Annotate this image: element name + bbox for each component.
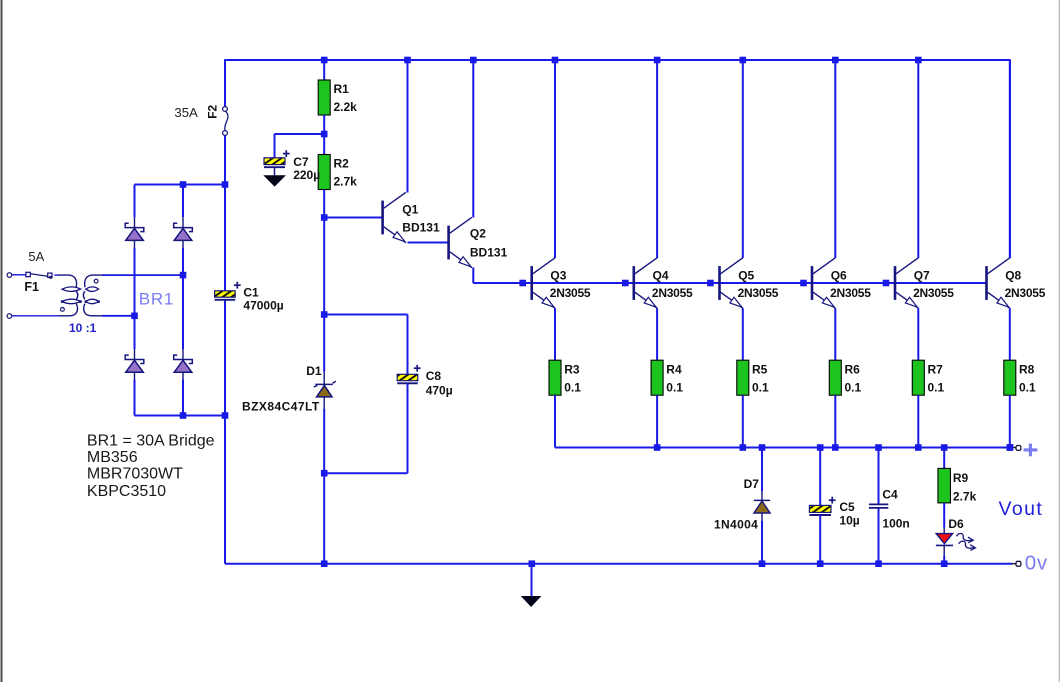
transistor Q1 <box>383 192 440 242</box>
wire Q4 collector up <box>656 60 658 258</box>
wire C4 branch <box>878 448 880 505</box>
svg-text:C4: C4 <box>882 488 898 502</box>
svg-text:220µ: 220µ <box>293 168 320 182</box>
svg-text:C8: C8 <box>426 369 442 383</box>
transformer T1 secondary winding <box>83 275 103 316</box>
node Q1 base tap <box>321 214 328 221</box>
wire left rail junction-to-C1 <box>224 185 226 291</box>
svg-text:10 :1: 10 :1 <box>69 321 97 335</box>
wire Q5 collector up <box>742 60 744 258</box>
node bridge top F2 rail <box>222 181 229 188</box>
wire 0v rail <box>225 563 1012 565</box>
node base bus junction <box>883 280 890 287</box>
note bridge types line2 <box>87 449 138 466</box>
resistor R4 <box>651 360 683 395</box>
diode bridge lower-right <box>174 355 193 372</box>
label 10 to 1 ratio <box>69 321 97 335</box>
svg-text:0.1: 0.1 <box>666 380 683 394</box>
svg-text:2N3055: 2N3055 <box>738 286 779 300</box>
wire secondary bottom to bridge left leg <box>102 315 135 317</box>
wire Q8 collector drop from top bus <box>1009 59 1011 258</box>
wire D7 to 0v <box>761 513 763 564</box>
resistor R1 <box>318 80 357 115</box>
svg-text:F2: F2 <box>206 104 220 118</box>
node 0v D7 <box>759 560 766 567</box>
wire R2 to Q1 base node <box>323 190 325 218</box>
label Vout <box>999 498 1044 520</box>
wire Q5 emitter down <box>742 308 744 360</box>
label F1 <box>24 280 39 294</box>
node plus rail R9 <box>941 444 948 451</box>
node bridge bottom at left rail <box>222 412 229 419</box>
wire Q2 collector up <box>472 60 474 218</box>
diode bridge upper-right <box>174 223 193 240</box>
node base bus junction <box>800 280 807 287</box>
diode D7 <box>714 477 770 531</box>
node base bus junction <box>622 280 629 287</box>
terminal primary top <box>7 273 12 278</box>
wire C8 tap to zener D1 <box>323 315 325 386</box>
label 0v terminal <box>1025 551 1048 574</box>
node plus rail R4 <box>654 444 661 451</box>
wire R1R2 junction to C7 <box>275 134 325 158</box>
resistor R6 <box>829 360 861 395</box>
transistor Q7 <box>895 258 954 308</box>
svg-text:Q4: Q4 <box>653 268 669 282</box>
wire Q8 emitter down <box>1009 308 1011 360</box>
wire top supply bus <box>225 59 1010 61</box>
wire left rail to 0v corner <box>224 416 226 564</box>
svg-text:R6: R6 <box>845 363 861 377</box>
transformer T1 primary winding <box>58 275 82 316</box>
svg-text:BR1 = 30A Bridge: BR1 = 30A Bridge <box>87 433 215 450</box>
resistor R8 <box>1004 360 1036 395</box>
wire R3 to plus rail <box>554 395 556 447</box>
wire Q3 collector up <box>554 60 556 258</box>
wire Q3 emitter down <box>554 308 556 360</box>
node C8 top tap <box>321 311 328 318</box>
node top bus Q7 collector <box>915 57 922 64</box>
svg-text:R8: R8 <box>1019 363 1035 377</box>
wire R6 to plus rail <box>834 395 836 447</box>
lead stubs bridge right diodes <box>182 217 184 380</box>
node base bus junction <box>707 280 714 287</box>
wire D7 branch <box>761 448 763 501</box>
wire fuse to primary coil <box>54 274 59 276</box>
node top bus Q5 collector <box>740 57 747 64</box>
wire left rail upper (F2 leg) <box>224 59 226 106</box>
frame right border <box>1059 0 1060 682</box>
svg-text:35A: 35A <box>174 105 198 120</box>
wire Q1 emitter to Q2 base <box>408 242 449 244</box>
svg-text:BD131: BD131 <box>402 221 440 235</box>
wire ground stub <box>531 564 533 599</box>
svg-text:Vout: Vout <box>999 498 1044 520</box>
node 0v C4 <box>875 560 882 567</box>
svg-text:Q5: Q5 <box>738 268 754 282</box>
terminal plus output <box>1013 446 1021 451</box>
node secondary bottom at left leg <box>131 313 138 320</box>
svg-text:2.2k: 2.2k <box>334 100 358 114</box>
transistor Q4 <box>634 258 693 308</box>
label plus terminal <box>1024 444 1038 457</box>
svg-text:R4: R4 <box>666 363 682 377</box>
node plus rail R7 <box>915 444 922 451</box>
transistor Q6 <box>812 258 871 308</box>
wire bridge right leg segments <box>182 185 184 416</box>
svg-text:2N3055: 2N3055 <box>550 286 591 300</box>
node plus rail D7 <box>759 444 766 451</box>
diode bridge upper-left <box>125 223 144 240</box>
node 0v C5 <box>817 560 824 567</box>
svg-text:Q8: Q8 <box>1005 268 1021 282</box>
svg-text:BD131: BD131 <box>470 245 508 259</box>
svg-text:100n: 100n <box>882 516 909 530</box>
resistor R5 <box>737 360 769 395</box>
svg-text:470µ: 470µ <box>426 384 453 398</box>
node top bus Q6 collector <box>832 57 839 64</box>
node C8 bottom tap <box>321 470 328 477</box>
wire R1 to R2 <box>323 115 325 155</box>
wire D1 rail to 0v <box>323 473 325 564</box>
led D6 <box>936 517 964 545</box>
svg-text:D1: D1 <box>306 364 322 378</box>
label F2 rotated <box>206 104 220 118</box>
led D6 light arrows <box>956 534 975 551</box>
terminal 0v output <box>1012 561 1021 566</box>
wire D1 to C8 bottom tap <box>323 397 325 473</box>
capacitor C4 <box>869 488 910 531</box>
node 0v ground stub <box>529 560 536 567</box>
resistor R7 <box>912 360 944 395</box>
capacitor C1 <box>215 282 284 313</box>
wire R7 to plus rail <box>917 395 919 447</box>
node bridge bottom right leg <box>180 412 187 419</box>
svg-text:C7: C7 <box>293 155 309 169</box>
node plus rail R6 <box>832 444 839 451</box>
ground below C7 <box>263 175 286 186</box>
svg-text:1N4004: 1N4004 <box>714 517 758 531</box>
fuse F2 <box>223 107 228 136</box>
lead stubs bridge left diodes <box>134 217 136 380</box>
svg-text:Q7: Q7 <box>914 268 930 282</box>
svg-text:0v: 0v <box>1025 551 1048 574</box>
svg-text:0.1: 0.1 <box>845 380 862 394</box>
node plus rail C4 <box>875 444 882 451</box>
svg-text:Q2: Q2 <box>470 227 486 241</box>
wire C5 branch <box>819 448 821 506</box>
capacitor C5 <box>809 497 859 528</box>
resistor R9 <box>938 468 977 503</box>
svg-text:C5: C5 <box>839 500 855 514</box>
wire R9 to D6 <box>943 503 945 534</box>
wire C7 to ground stub <box>274 167 276 175</box>
svg-text:MB356: MB356 <box>87 449 138 466</box>
node plus rail R8 end <box>1007 444 1014 451</box>
wire left rail F2-to-junction <box>224 136 226 185</box>
svg-text:5A: 5A <box>28 249 44 264</box>
wire C5 to 0v <box>819 515 821 564</box>
svg-text:0.1: 0.1 <box>1019 380 1036 394</box>
svg-text:R9: R9 <box>953 471 969 485</box>
diode bridge lower-left <box>125 355 144 372</box>
wire Q7 emitter down <box>917 308 919 360</box>
resistor R3 <box>549 360 581 395</box>
svg-text:2N3055: 2N3055 <box>830 286 871 300</box>
wire Q6 collector up <box>834 60 836 258</box>
wire output base bus <box>473 282 986 284</box>
svg-text:47000µ: 47000µ <box>243 299 283 313</box>
wire Q6 emitter down <box>834 308 836 360</box>
node plus rail R5 <box>740 444 747 451</box>
ground symbol main <box>521 596 542 607</box>
svg-text:R5: R5 <box>752 363 768 377</box>
svg-text:Q6: Q6 <box>831 268 847 282</box>
svg-text:D6: D6 <box>948 517 964 531</box>
svg-text:R2: R2 <box>334 157 350 171</box>
wire Q1 collector up <box>407 60 409 193</box>
transistor Q8 <box>987 258 1046 308</box>
svg-text:2N3055: 2N3055 <box>652 286 693 300</box>
wire left rail C1-to-bottom <box>224 300 226 415</box>
fuse F1 <box>26 272 52 278</box>
wire Q2 emitter down to base bus <box>473 268 531 284</box>
svg-text:2.7k: 2.7k <box>953 490 977 504</box>
wire bridge top bus <box>135 184 226 186</box>
note bridge types line1 <box>87 433 215 450</box>
transistor Q5 <box>720 258 779 308</box>
node top bus R1 <box>321 57 328 64</box>
zener diode D1 <box>242 364 336 413</box>
svg-text:2.7k: 2.7k <box>334 175 358 189</box>
node top bus Q3 collector <box>552 57 559 64</box>
wire R9 branch <box>943 448 945 469</box>
node base bus junction <box>519 280 526 287</box>
svg-text:Q1: Q1 <box>402 202 418 216</box>
label 5A <box>28 249 44 264</box>
transistor Q3 <box>532 258 591 308</box>
svg-text:MBR7030WT: MBR7030WT <box>87 466 183 483</box>
wire R5 to plus rail <box>742 395 744 447</box>
node bridge top right leg <box>180 181 187 188</box>
note bridge types line4 <box>87 483 166 500</box>
terminal primary bottom <box>7 314 12 319</box>
svg-text:Q3: Q3 <box>550 268 566 282</box>
svg-text:10µ: 10µ <box>839 513 859 527</box>
svg-text:R3: R3 <box>564 363 580 377</box>
wire Q8 collector up <box>1009 60 1011 258</box>
capacitor C8 <box>397 365 453 398</box>
node R1-R2 junction <box>321 131 328 138</box>
wire Q1 base node down to C8 tap <box>323 218 325 315</box>
svg-text:F1: F1 <box>24 280 39 294</box>
wire plus output rail <box>555 447 1013 449</box>
note bridge types line3 <box>87 466 183 483</box>
label 35A <box>174 105 198 120</box>
transistor Q2 <box>449 217 508 267</box>
wire Q4 emitter down <box>656 308 658 360</box>
svg-text:0.1: 0.1 <box>752 380 769 394</box>
node top bus Q4 collector <box>654 57 661 64</box>
svg-text:0.1: 0.1 <box>564 380 581 394</box>
wire R4 to plus rail <box>656 395 658 447</box>
wire Q7 collector up <box>917 60 919 258</box>
resistor R2 <box>318 155 357 190</box>
node 0v D6 <box>941 560 948 567</box>
svg-text:KBPC3510: KBPC3510 <box>87 483 166 500</box>
label BR1 <box>139 290 174 309</box>
svg-text:BR1: BR1 <box>139 290 174 309</box>
node top bus Q1 collector <box>404 57 411 64</box>
svg-text:C1: C1 <box>243 285 259 299</box>
wire D6 to 0v <box>943 545 945 563</box>
capacitor C7 <box>264 150 320 182</box>
node secondary top at right leg <box>180 272 187 279</box>
wire R8 to plus rail <box>1009 395 1011 447</box>
wire Q1 base <box>324 217 382 219</box>
frame left border <box>1 0 3 682</box>
wire bridge bottom bus <box>135 415 226 417</box>
wire C8 top branch <box>324 315 407 375</box>
svg-text:R7: R7 <box>928 363 944 377</box>
svg-text:R1: R1 <box>334 82 350 96</box>
node plus rail C5 <box>817 444 824 451</box>
svg-text:BZX84C47LT: BZX84C47LT <box>242 399 320 413</box>
wire top bus to R1 <box>323 60 325 80</box>
node D1 at 0v rail <box>321 560 328 567</box>
wire secondary top to bridge right leg <box>102 274 183 276</box>
node top bus Q2 collector <box>470 57 477 64</box>
wire bridge left leg segments <box>134 185 136 416</box>
wire C8 bottom branch <box>324 384 407 473</box>
wire C4 to 0v <box>878 508 880 564</box>
svg-text:D7: D7 <box>744 477 760 491</box>
svg-text:2N3055: 2N3055 <box>1005 286 1046 300</box>
node plus rail R8 <box>1007 444 1014 451</box>
svg-text:2N3055: 2N3055 <box>913 286 954 300</box>
svg-text:0.1: 0.1 <box>928 380 945 394</box>
wire primary top lead <box>12 274 26 276</box>
wire primary bottom lead <box>12 315 59 317</box>
